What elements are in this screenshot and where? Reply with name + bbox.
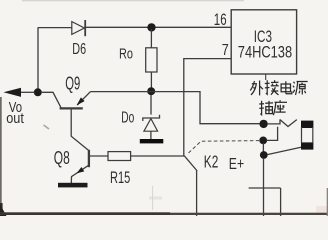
node junction dot Ro bottom / Do top: [147, 87, 155, 95]
resistor R15: [108, 152, 131, 161]
diode D6: [72, 20, 85, 36]
transistor Q8 emitter lead: [71, 165, 88, 183]
svg-text:R15: R15: [110, 168, 130, 187]
wire Do top lead: [150, 95, 152, 115]
wire jack switch contact: [267, 127, 278, 141]
zener diode Do: [143, 115, 160, 139]
wire pin7 net: horizontal into IC and vertical down to K2: [184, 59, 231, 156]
scan border top: [22, 0, 244, 2]
svg-text:Ro: Ro: [119, 47, 133, 63]
wire bottom-right vertical: [280, 188, 282, 216]
wire K2 bottom vertical: [196, 171, 198, 216]
scan border right: [327, 188, 328, 216]
power jack body: [301, 121, 313, 150]
wire top rail from corner to diode anode: [38, 27, 72, 29]
node junction dot Vo: [34, 88, 42, 96]
svg-text:K2: K2: [204, 151, 219, 171]
transistor Q9 base bar: [60, 107, 83, 109]
svg-text:Q8: Q8: [54, 148, 70, 168]
svg-text:Do: Do: [121, 109, 134, 126]
transistor Q8 emitter arrow: [77, 167, 85, 173]
transistor Q9 collector lead: [42, 92, 61, 107]
wire Q9 base down-diagonal to Q8 collector: [71, 109, 88, 150]
label 外接电源 (drawn): [250, 80, 307, 95]
Vo output arrow: [4, 88, 22, 97]
ground of Do: [140, 139, 164, 143]
svg-text:74HC138: 74HC138: [238, 42, 292, 61]
wire jack tip contact: [267, 119, 280, 124]
svg-text:D6: D6: [72, 41, 86, 58]
node jack switch contact dot: [259, 137, 267, 145]
mechanical linkage dash line K2 to jack switch: [189, 141, 260, 153]
node jack tip contact dot: [259, 120, 267, 128]
IC3 74HC138 box: [231, 10, 296, 74]
wire Ro top lead: [150, 29, 152, 48]
scan border bottom: [0, 206, 328, 215]
svg-text:16: 16: [214, 10, 227, 29]
transistor Q9 emitter arrow: [77, 97, 85, 105]
transistor Q9 emitter lead: [77, 92, 90, 105]
label Vo out: [6, 100, 24, 127]
scan border left: [0, 97, 7, 216]
wire Vo arrow shaft: [21, 91, 36, 93]
wire Ro bottom lead: [150, 72, 152, 90]
transistor Q8 base bar: [88, 150, 90, 167]
wire jack sleeve lead: [267, 147, 301, 154]
wire top rail diode cathode to IC pin16: [85, 26, 231, 28]
jack tip spring contact: [280, 120, 297, 127]
wire dot2 to dot3: [262, 143, 264, 152]
svg-text:out: out: [6, 111, 24, 127]
ground of Q8 emitter: [58, 183, 88, 188]
wire Q9 emitter to right rail with corner to jack tip: [91, 92, 261, 124]
svg-text:Q9: Q9: [65, 74, 80, 94]
IC bottom stub: [265, 74, 267, 80]
svg-text:7: 7: [222, 42, 229, 59]
node junction dot at top rail / Ro: [147, 23, 155, 31]
label 插座 (drawn): [259, 100, 287, 115]
switch K2 blade: [184, 156, 197, 171]
resistor Ro: [146, 48, 157, 72]
wire bottom-right horizontal: [249, 187, 281, 189]
comma artifact near Q9: [44, 125, 50, 129]
transistor Q8 base lead to R15: [90, 155, 109, 157]
wire E+ vertical down: [263, 158, 265, 216]
node jack sleeve dot: [260, 151, 268, 159]
wire R15 right to K2 node: [131, 155, 184, 157]
faint ghost vertical under Do: [152, 186, 154, 210]
wire left vertical drop to Vo node: [37, 28, 39, 93]
speck artifact: [149, 197, 162, 200]
svg-text:E+: E+: [229, 156, 244, 173]
